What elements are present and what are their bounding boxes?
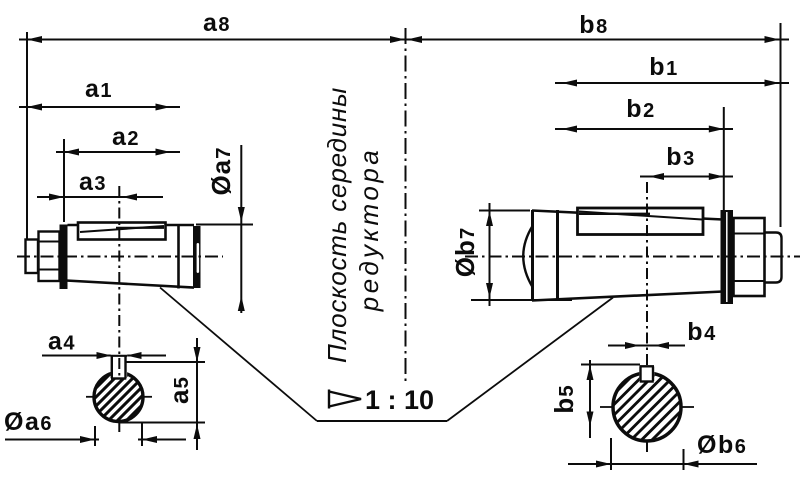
- dimension b2: [555, 128, 733, 130]
- right circle horizontal center marks: [600, 406, 614, 408]
- svg-text:a1: a1: [85, 75, 113, 103]
- dimension b4: [608, 345, 685, 347]
- dimension a5: [196, 338, 198, 450]
- right shaft end face line: [531, 210, 534, 301]
- right shaft big end arc: [523, 226, 532, 287]
- dimension diameter a6: [5, 439, 99, 441]
- svg-text:Øa7: Øa7: [206, 146, 236, 195]
- right circle hatching: [538, 340, 752, 470]
- right nut facet lines: [734, 234, 765, 282]
- left circle cross-section: [94, 373, 143, 422]
- extension line right (b8/b1): [780, 23, 782, 227]
- left keyway slot bottom line: [116, 227, 164, 229]
- right shaft keyway: [578, 208, 704, 235]
- dimension b8: [400, 39, 789, 41]
- extension line top for diameter b7: [479, 210, 530, 212]
- dimension diameter a7: [240, 145, 242, 313]
- dimension a8: [19, 39, 411, 41]
- extension line a5 top: [126, 361, 205, 363]
- extension line bottom for diameter b7: [471, 299, 572, 301]
- svg-text:a3: a3: [79, 168, 107, 196]
- dimension b5: [589, 360, 591, 438]
- left shaft end face bar: [193, 226, 201, 288]
- left keyway slot: [111, 350, 127, 378]
- label: редуктора: [354, 147, 384, 313]
- left shaft end face highlight: [197, 243, 200, 273]
- dimension b3: [640, 176, 733, 178]
- left shaft body top edge: [68, 224, 195, 227]
- left keyway inner surface line: [80, 226, 164, 232]
- right shaft tip cylinder: [765, 233, 782, 283]
- taper note text 1:10: [365, 385, 434, 415]
- right keyway slot: [639, 360, 654, 381]
- extension line a5 bottom: [119, 422, 205, 424]
- svg-text:a8: a8: [203, 9, 231, 37]
- right shaft second end line: [556, 210, 559, 301]
- leader from left shaft to taper note: [160, 288, 317, 422]
- svg-text:Плоскость середины: Плоскость середины: [322, 87, 352, 363]
- right circle cross-section: [613, 373, 681, 441]
- right shaft body bottom edge: [532, 292, 723, 301]
- svg-text:a2: a2: [112, 123, 140, 151]
- extension lines diameter a6: [95, 423, 142, 446]
- center plane line: [405, 28, 407, 384]
- extension line top for diameter a7: [196, 224, 253, 226]
- svg-text:редуктора: редуктора: [354, 147, 384, 313]
- left shaft body end line: [177, 224, 180, 289]
- right keyway inner surface line: [579, 212, 702, 220]
- label: Плоскость середины: [322, 87, 352, 363]
- left shaft nut: [39, 232, 60, 282]
- leader from right shaft to taper note: [447, 298, 613, 422]
- svg-text:b5: b5: [549, 384, 579, 413]
- svg-text:a4: a4: [48, 328, 76, 356]
- left circle horizontal center marks: [86, 396, 96, 398]
- taper note baseline: [317, 420, 447, 422]
- extension line b5 top: [581, 364, 640, 366]
- right keyway slot bottom line: [579, 213, 650, 215]
- extension lines diameter b6: [611, 438, 684, 470]
- left nut facet lines: [39, 242, 60, 270]
- left keyway centerline: [118, 186, 120, 433]
- svg-text:Øb7: Øb7: [450, 227, 480, 278]
- extension line left (a8/a1): [26, 32, 28, 239]
- extension line b2/b3: [723, 107, 725, 212]
- dimension a1: [19, 106, 180, 108]
- svg-text:Øa6: Øa6: [4, 408, 53, 436]
- right shaft body top edge: [532, 211, 723, 220]
- svg-text:b3: b3: [666, 143, 695, 171]
- dimension diameter b6: [568, 463, 757, 465]
- right shaft washer: [721, 210, 734, 304]
- taper symbol triangle: [329, 390, 361, 409]
- dimension b1: [555, 82, 789, 84]
- left shaft washer: [60, 225, 68, 290]
- left shaft body bottom edge: [66, 281, 194, 288]
- svg-text:b8: b8: [579, 11, 608, 39]
- svg-text:1 : 10: 1 : 10: [365, 385, 434, 415]
- svg-text:a5: a5: [164, 376, 194, 404]
- svg-text:b1: b1: [649, 53, 678, 81]
- extension line a2: [63, 139, 65, 222]
- right shaft centerline: [465, 256, 800, 258]
- dimension a3: [37, 196, 163, 198]
- svg-text:b2: b2: [626, 95, 655, 123]
- dimension a2: [56, 151, 180, 153]
- right shaft nut: [734, 218, 765, 296]
- left circle hatching: [29, 345, 202, 455]
- dimension diameter b7: [489, 203, 491, 306]
- svg-text:Øb6: Øb6: [697, 431, 747, 459]
- left shaft tip cylinder: [26, 240, 39, 274]
- svg-text:b4: b4: [687, 318, 716, 346]
- right keyway centerline: [646, 182, 648, 456]
- dimension a4: [42, 355, 166, 357]
- left shaft centerline: [17, 256, 223, 258]
- left shaft keyway: [78, 223, 166, 240]
